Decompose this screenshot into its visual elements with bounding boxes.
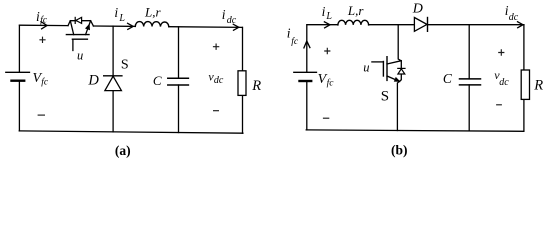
svg-text:(b): (b) bbox=[391, 143, 408, 158]
svg-text:S: S bbox=[381, 89, 389, 105]
svg-text:fc: fc bbox=[291, 36, 299, 47]
svg-text:i: i bbox=[287, 26, 291, 41]
svg-text:i: i bbox=[222, 7, 226, 22]
svg-text:fc: fc bbox=[327, 78, 335, 89]
svg-text:dc: dc bbox=[214, 75, 224, 86]
svg-text:dc: dc bbox=[227, 15, 237, 26]
svg-text:C: C bbox=[153, 73, 162, 88]
svg-text:u: u bbox=[77, 48, 83, 62]
svg-text:u: u bbox=[363, 60, 369, 74]
svg-text:L: L bbox=[118, 13, 125, 24]
svg-text:S: S bbox=[121, 58, 129, 73]
svg-text:D: D bbox=[412, 2, 423, 17]
svg-text:R: R bbox=[251, 78, 261, 94]
svg-text:L,r: L,r bbox=[144, 4, 161, 19]
svg-text:L: L bbox=[325, 11, 332, 22]
svg-text:i: i bbox=[114, 5, 118, 20]
svg-text:R: R bbox=[533, 78, 543, 94]
svg-text:C: C bbox=[443, 71, 453, 86]
svg-text:i: i bbox=[322, 4, 326, 19]
svg-text:dc: dc bbox=[499, 77, 509, 88]
svg-text:D: D bbox=[87, 73, 99, 89]
svg-text:L,r: L,r bbox=[347, 3, 364, 18]
svg-text:fc: fc bbox=[40, 15, 48, 26]
svg-text:(a): (a) bbox=[115, 143, 131, 158]
svg-text:dc: dc bbox=[509, 12, 519, 23]
svg-text:fc: fc bbox=[41, 76, 49, 87]
